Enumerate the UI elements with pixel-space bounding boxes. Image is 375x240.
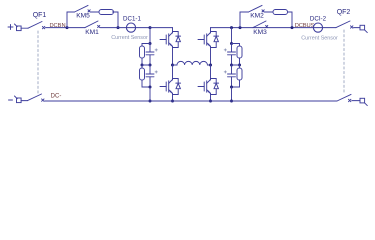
svg-text:DCI-2: DCI-2 <box>310 16 327 23</box>
svg-text:KM2: KM2 <box>250 12 264 19</box>
wire to current sensor DC1-1 <box>100 27 150 29</box>
wire mid rail right stub <box>207 64 210 66</box>
resistor R3 (lower balance) <box>140 65 151 87</box>
right snubber branch top wire <box>231 28 233 44</box>
IGBT bottom-right <box>198 79 219 95</box>
wire resistor to riser <box>288 12 293 28</box>
terminal + (DC input positive) <box>8 24 21 31</box>
wire top rail to left leg <box>150 27 173 29</box>
contactor KM2 <box>249 5 265 12</box>
capacitor C3 (upper) <box>224 44 235 66</box>
wire top rail corner into left leg <box>172 28 174 32</box>
capacitor C2 (lower) <box>146 65 157 87</box>
terminal DC output positive <box>360 25 367 32</box>
resistor R5 (lower balance) <box>232 65 243 87</box>
wire QF2 pole2 to terminal <box>352 100 360 102</box>
wire riser to precharge branch <box>67 12 75 28</box>
wire emitter to mid rail <box>172 48 174 66</box>
node bottom rail left leg <box>171 100 174 103</box>
wire jog to resistor R4 <box>232 44 240 47</box>
wire branch to bottom rail <box>149 87 151 101</box>
wire resistor to riser <box>113 12 119 28</box>
node top rail / left snubber branch <box>149 26 152 29</box>
resistor R4 (upper balance) <box>237 46 242 58</box>
wire mid link <box>142 64 150 66</box>
svg-text:KM5: KM5 <box>76 12 90 19</box>
contactor KM5 <box>75 5 91 12</box>
wire resistor to mid node <box>141 58 143 65</box>
wire right top rail <box>211 27 337 29</box>
wire jog to resistor <box>142 44 150 47</box>
svg-text:Current Sensor: Current Sensor <box>111 35 148 41</box>
wire KM2 to resistor <box>265 11 273 13</box>
precharge resistor R1 <box>99 10 114 15</box>
wire emitter to bottom rail <box>210 95 212 102</box>
terminal - (DC input negative) <box>9 96 22 103</box>
wire collector bottom-left IGBT <box>172 65 174 79</box>
wire emitter to bottom rail <box>172 95 174 102</box>
wire terminal- to QF1 pole 2 <box>21 100 27 102</box>
breaker QF2 pole 2 <box>337 94 351 101</box>
wire QF2 to terminal <box>354 27 361 29</box>
wire emitter to mid rail <box>210 48 212 66</box>
breaker QF1 pole 2 <box>28 94 45 101</box>
svg-text:DC1-1: DC1-1 <box>123 16 141 23</box>
node DCBUS junction <box>291 26 294 29</box>
svg-text:KM3: KM3 <box>253 29 267 36</box>
current sensor DCI-2 <box>313 23 322 32</box>
capacitor C4 (lower) <box>224 65 235 87</box>
precharge resistor R6 <box>273 10 288 15</box>
svg-text:KM1: KM1 <box>85 29 99 36</box>
svg-text:DC-: DC- <box>51 93 62 99</box>
breaker QF2 pole 1 <box>336 21 353 28</box>
node mid rail left <box>171 64 174 67</box>
node branch join bottom right <box>230 86 233 89</box>
wire riser to right precharge <box>240 12 249 28</box>
node bottom rail right branch <box>230 100 233 103</box>
wire collector bottom-right IGBT <box>210 65 212 79</box>
wire mid rail left stub <box>173 64 178 66</box>
current sensor DC1-1 <box>126 23 135 32</box>
wire QF1 to node DCBN <box>46 27 68 29</box>
capacitor C1 (upper) <box>146 44 157 66</box>
wire top rail corner into right leg <box>210 28 212 32</box>
left snubber branch top wire <box>149 28 151 44</box>
IGBT bottom-left <box>160 79 181 95</box>
node branch join bottom <box>149 86 152 89</box>
terminal DC output negative <box>360 98 367 105</box>
wire terminal+ to QF1 <box>21 27 28 29</box>
svg-text:QF2: QF2 <box>337 9 351 16</box>
resistor R2 (upper balance) <box>140 46 145 58</box>
wire KM5 to resistor <box>91 11 99 13</box>
QF2 linkage dashed line <box>343 30 345 93</box>
node bottom rail right leg <box>209 100 212 103</box>
node branch split top <box>149 42 152 45</box>
IGBT top-right <box>198 32 219 48</box>
contactor KM1 <box>85 21 100 28</box>
wire mid link right <box>232 64 240 66</box>
node mid rail right <box>209 64 212 67</box>
node branch split top right <box>230 42 233 45</box>
node right precharge left junction <box>239 26 242 29</box>
inductor L1 <box>177 61 207 65</box>
svg-text:Current Sensor: Current Sensor <box>301 36 338 42</box>
svg-text:DCBN: DCBN <box>49 23 65 29</box>
node right snubber branch <box>230 26 233 29</box>
wire DCBN node to KM1 <box>67 27 85 29</box>
node branch mid right <box>230 64 233 67</box>
wire resistor to mid node <box>239 58 241 65</box>
IGBT top-left <box>160 32 181 48</box>
contactor KM3 <box>253 21 268 28</box>
wire branch to bottom rail <box>231 87 233 101</box>
node branch mid <box>141 64 144 67</box>
svg-text:DCBUS: DCBUS <box>295 23 315 29</box>
svg-text:QF1: QF1 <box>33 12 47 19</box>
breaker QF1 pole 1 <box>28 22 45 29</box>
node DCBN junction <box>66 26 69 29</box>
node bottom rail left branch <box>149 100 152 103</box>
QF1 linkage dashed line <box>37 31 39 93</box>
node precharge right junction <box>117 26 120 29</box>
wire bottom rail <box>45 100 337 102</box>
